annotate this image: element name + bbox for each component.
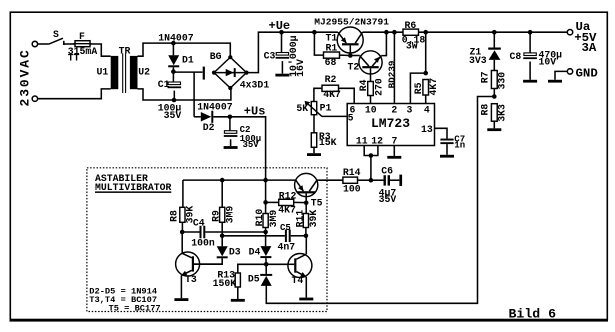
- svg-text:4K7: 4K7: [323, 89, 341, 100]
- capacitor C1 100u 35V: [168, 82, 180, 85]
- ground C8: [523, 80, 537, 83]
- wire: [446, 144, 448, 155]
- svg-text:270: 270: [373, 78, 384, 96]
- diode D4: [260, 246, 271, 256]
- wire: [493, 89, 495, 97]
- wire T2 base to R4: [370, 68, 372, 81]
- ground T3: [174, 298, 188, 301]
- wire to T4 base: [266, 263, 288, 265]
- svg-text:5: 5: [348, 112, 354, 123]
- node C8: [528, 30, 533, 35]
- node R9 top: [220, 178, 225, 183]
- resistor R4 270: [368, 82, 374, 96]
- svg-text:3A: 3A: [582, 41, 597, 55]
- wire pins 11 12 joined: [364, 146, 378, 156]
- svg-text:330: 330: [496, 72, 507, 90]
- node Z1 branch: [492, 30, 497, 35]
- svg-text:39K: 39K: [308, 210, 319, 228]
- svg-text:3K3: 3K3: [496, 104, 507, 122]
- wire: [172, 67, 174, 71]
- node pin2 branch: [392, 30, 397, 35]
- svg-text:C5: C5: [280, 223, 291, 233]
- wire T4 collector: [305, 236, 307, 254]
- wire: [213, 116, 230, 118]
- svg-text:35V: 35V: [243, 140, 260, 150]
- svg-text:U2: U2: [138, 67, 150, 78]
- op-amp U1 LM723 regulator box: [347, 104, 434, 146]
- wire T5 base: [305, 193, 307, 202]
- svg-text:T3: T3: [185, 274, 197, 285]
- wire: [493, 60, 495, 71]
- wire P1 to R3: [313, 115, 315, 133]
- wire: [358, 179, 371, 181]
- wire rail: [363, 31, 404, 33]
- wire pin 7: [393, 146, 395, 156]
- svg-text:35V: 35V: [164, 110, 182, 121]
- wire: [221, 236, 223, 247]
- wire: [529, 62, 531, 80]
- wire to R13: [238, 264, 266, 273]
- zener Z1 3V3: [488, 48, 501, 50]
- resistor R12 4K7: [279, 199, 294, 205]
- svg-text:BG: BG: [210, 51, 222, 62]
- ground R8: [487, 128, 501, 131]
- transistor T1 MJ2955 PNP: [337, 27, 363, 53]
- wire T3 emitter: [180, 276, 182, 299]
- svg-text:4K7: 4K7: [278, 204, 296, 215]
- svg-text:R2: R2: [325, 74, 337, 85]
- wire pin 2 to rail: [393, 32, 395, 103]
- node R7 R8: [492, 94, 497, 99]
- transformer TR secondary U2: [130, 56, 138, 89]
- wire: [390, 179, 399, 181]
- wire output rail: [419, 31, 571, 33]
- node R10 D4 C4: [263, 230, 268, 235]
- wire: [90, 44, 111, 56]
- node R14 C6: [369, 178, 374, 183]
- wire: [493, 32, 495, 47]
- svg-text:C8: C8: [510, 51, 522, 62]
- node R5 top: [423, 71, 428, 76]
- svg-text:T5: T5: [311, 198, 323, 209]
- wire pin 13 to C7: [435, 128, 448, 138]
- wire R2 to P1: [314, 88, 322, 101]
- wire: [294, 201, 307, 203]
- wire divider node to D5 anode: [266, 97, 494, 304]
- wire: [182, 231, 199, 233]
- input terminal bottom: [32, 96, 37, 101]
- wire bridge + to +Ue: [247, 32, 282, 72]
- svg-text:5K: 5K: [296, 103, 308, 114]
- wire: [172, 72, 174, 82]
- svg-text:TT: TT: [68, 52, 80, 63]
- svg-text:LM723: LM723: [371, 116, 410, 131]
- wire T3 base: [194, 263, 222, 265]
- ground output: [548, 80, 562, 83]
- wire D3 to T3 base: [194, 258, 222, 264]
- wire: [173, 91, 175, 100]
- wire T4 emitter: [305, 277, 307, 298]
- wire: [371, 179, 384, 181]
- svg-text:230VAC: 230VAC: [18, 48, 33, 106]
- node T5 base R12 R11: [304, 201, 309, 206]
- capacitor C6 4u7 35V: [384, 175, 386, 185]
- node D1 anode: [171, 41, 176, 46]
- node +Ue: [279, 30, 284, 35]
- wire: [529, 32, 531, 53]
- wire: [172, 43, 174, 55]
- input terminal top: [32, 41, 37, 46]
- node T1 base: [348, 53, 353, 58]
- transformer TR primary U1: [111, 56, 119, 89]
- svg-text:10: 10: [365, 104, 377, 115]
- svg-text:S: S: [53, 29, 59, 40]
- wire: [305, 203, 307, 214]
- wire R4 to pin 10: [370, 96, 372, 104]
- wire: [221, 180, 223, 207]
- wire down to R14 node: [370, 156, 372, 181]
- terminal GND: [567, 69, 572, 74]
- wire C4 to D4 node: [205, 231, 265, 233]
- wire: [237, 287, 239, 299]
- svg-text:D4: D4: [249, 246, 261, 257]
- wire: [265, 264, 267, 274]
- node T2 emitter: [384, 30, 389, 35]
- svg-text:2: 2: [391, 104, 397, 115]
- wire: [265, 180, 267, 213]
- wire: [281, 32, 283, 52]
- bridge rectifier BG 4x3D1: [203, 67, 205, 80]
- svg-text:C1: C1: [158, 79, 170, 90]
- svg-text:7: 7: [391, 135, 397, 146]
- svg-text:150K: 150K: [213, 278, 237, 289]
- transistor T2 BD239: [359, 51, 382, 74]
- capacitor C8 470u 10V: [524, 53, 536, 56]
- svg-text:12: 12: [371, 135, 383, 146]
- wire: [38, 89, 111, 99]
- wire secondary bottom to bridge: [138, 88, 231, 100]
- svg-text:T2: T2: [348, 61, 360, 72]
- svg-text:13: 13: [421, 124, 433, 135]
- wire: [230, 139, 232, 146]
- svg-text:T4: T4: [292, 275, 304, 286]
- resistor R14 100: [343, 177, 358, 183]
- wire down to D2: [193, 72, 195, 117]
- wire: [266, 201, 279, 203]
- fuse F 315mA: [75, 41, 90, 47]
- svg-text:+Ue: +Ue: [269, 19, 291, 33]
- wire: [291, 235, 306, 237]
- resistor R3 15K: [311, 133, 316, 148]
- wire: [221, 222, 223, 236]
- resistor R1 68: [324, 52, 340, 58]
- wire: [265, 228, 267, 233]
- wire: [181, 222, 183, 232]
- wire P1 wiper to pin 5: [322, 115, 347, 117]
- wire: [340, 54, 351, 56]
- capacitor C2 100u 35V: [224, 131, 236, 134]
- wire +Ue rail: [282, 31, 338, 33]
- diode D1: [168, 55, 179, 65]
- svg-text:100n: 100n: [191, 237, 215, 248]
- svg-text:D5: D5: [248, 274, 260, 285]
- svg-text:35V: 35V: [379, 194, 397, 205]
- wire R5 to pin 4: [425, 95, 427, 104]
- node R12 left: [263, 200, 268, 205]
- wire T2 emitter to rail: [382, 32, 387, 55]
- wire: [281, 61, 283, 74]
- wire: [64, 43, 75, 45]
- diode D3: [217, 246, 228, 256]
- svg-text:1N4007: 1N4007: [158, 33, 193, 44]
- ground C7: [440, 155, 454, 158]
- output terminal Ua: [567, 30, 572, 35]
- svg-text:4K7: 4K7: [428, 78, 439, 96]
- transistor T4 BC107: [288, 254, 312, 278]
- node D4 D5 R13 T4 base: [264, 262, 269, 267]
- wire T5 collector to R14: [319, 179, 343, 181]
- svg-text:C3: C3: [264, 51, 276, 62]
- svg-text:R8: R8: [479, 104, 490, 116]
- node T3 collector C4: [180, 230, 185, 235]
- svg-text:Bild 6: Bild 6: [509, 307, 557, 322]
- svg-text:MJ2955/2N3791: MJ2955/2N3791: [314, 17, 389, 28]
- svg-text:15K: 15K: [319, 137, 337, 148]
- wire: [265, 258, 267, 264]
- wire T1 base: [349, 45, 351, 55]
- wire T4 base: [288, 263, 294, 265]
- svg-text:3M9: 3M9: [225, 206, 236, 224]
- svg-text:U1: U1: [97, 67, 109, 78]
- wire to R1: [314, 32, 323, 55]
- diode D2: [201, 112, 212, 122]
- resistor R2 4K7: [322, 85, 339, 91]
- svg-text:16V: 16V: [295, 59, 306, 77]
- svg-text:4x3D1: 4x3D1: [240, 79, 270, 90]
- wire: [194, 116, 201, 118]
- wire: [182, 180, 184, 207]
- svg-text:D1: D1: [182, 54, 194, 65]
- node +Us rail: [263, 178, 268, 183]
- ground C2: [224, 146, 238, 149]
- capacitor C5 4n7: [285, 230, 287, 243]
- svg-text:R8: R8: [168, 210, 179, 222]
- wire to D4: [265, 232, 267, 246]
- wire: [425, 32, 427, 73]
- wire multivibrator rail: [183, 179, 296, 181]
- svg-text:R5: R5: [413, 82, 424, 94]
- svg-text:1N4007: 1N4007: [197, 102, 232, 113]
- svg-text:68: 68: [325, 57, 337, 68]
- svg-text:BD239: BD239: [386, 60, 397, 88]
- svg-text:C6: C6: [381, 165, 393, 176]
- wire to C5: [222, 235, 285, 237]
- wire: [38, 43, 49, 45]
- transistor T3 BC107: [176, 252, 200, 276]
- node +Us: [228, 115, 233, 120]
- svg-text:D2: D2: [203, 122, 215, 133]
- svg-text:4n7: 4n7: [278, 241, 296, 252]
- svg-text:TR: TR: [119, 45, 131, 56]
- wire to pin 3: [410, 73, 425, 103]
- svg-text:T5 = BC177: T5 = BC177: [109, 304, 161, 314]
- svg-text:3: 3: [406, 104, 412, 115]
- potentiometer P1 5K: [311, 102, 316, 115]
- svg-text:GND: GND: [576, 66, 598, 80]
- ground C6 (sideways bar): [399, 175, 402, 186]
- svg-text:D3: D3: [229, 246, 241, 257]
- wire: [313, 147, 315, 153]
- diode D5: [260, 274, 272, 276]
- ground R13: [231, 299, 245, 302]
- resistor R6 0.18 3W: [403, 29, 419, 35]
- svg-text:10V: 10V: [539, 56, 557, 67]
- ground R3: [307, 153, 321, 156]
- ground T4: [299, 298, 313, 301]
- wire +Us down to multivibrator rail: [230, 117, 266, 180]
- svg-text:11: 11: [356, 135, 368, 146]
- wire: [229, 117, 231, 131]
- node R5 branch: [423, 30, 428, 35]
- wire R2 to pin 6: [339, 88, 355, 103]
- wire D1 cathode to bridge ac: [173, 71, 202, 73]
- capacitor C4 100n: [200, 226, 202, 239]
- wire to T3 collector: [181, 232, 183, 253]
- wire: [305, 228, 307, 236]
- svg-text:1n: 1n: [454, 141, 465, 151]
- svg-text:F: F: [79, 31, 85, 42]
- ground pin 7: [387, 156, 401, 159]
- node pin 11 12: [369, 153, 374, 158]
- wire: [493, 121, 495, 128]
- ground C3: [275, 74, 289, 77]
- svg-text:3V3: 3V3: [469, 55, 487, 66]
- wire secondary top to bridge: [138, 43, 231, 57]
- node R1 branch: [312, 30, 317, 35]
- capacitor C3 10'000u 16V: [276, 53, 288, 56]
- node R9 D3 C5: [220, 234, 225, 239]
- svg-text:4: 4: [424, 104, 430, 115]
- node C1 bottom: [172, 98, 177, 103]
- svg-text:C4: C4: [193, 217, 205, 228]
- wire: [555, 71, 567, 79]
- capacitor C7 1n: [440, 139, 453, 141]
- transistor T5 BC177 PNP: [295, 173, 318, 196]
- switch S: [49, 38, 64, 44]
- transformer core: [122, 53, 124, 93]
- svg-text:P1: P1: [320, 102, 332, 113]
- svg-text:R7: R7: [479, 71, 490, 83]
- node R11 T4 collector: [304, 234, 309, 239]
- dashed box astable multivibrator: [87, 168, 327, 312]
- node D1 cathode: [171, 69, 176, 74]
- svg-text:100: 100: [343, 184, 361, 195]
- svg-text:3W: 3W: [406, 41, 418, 52]
